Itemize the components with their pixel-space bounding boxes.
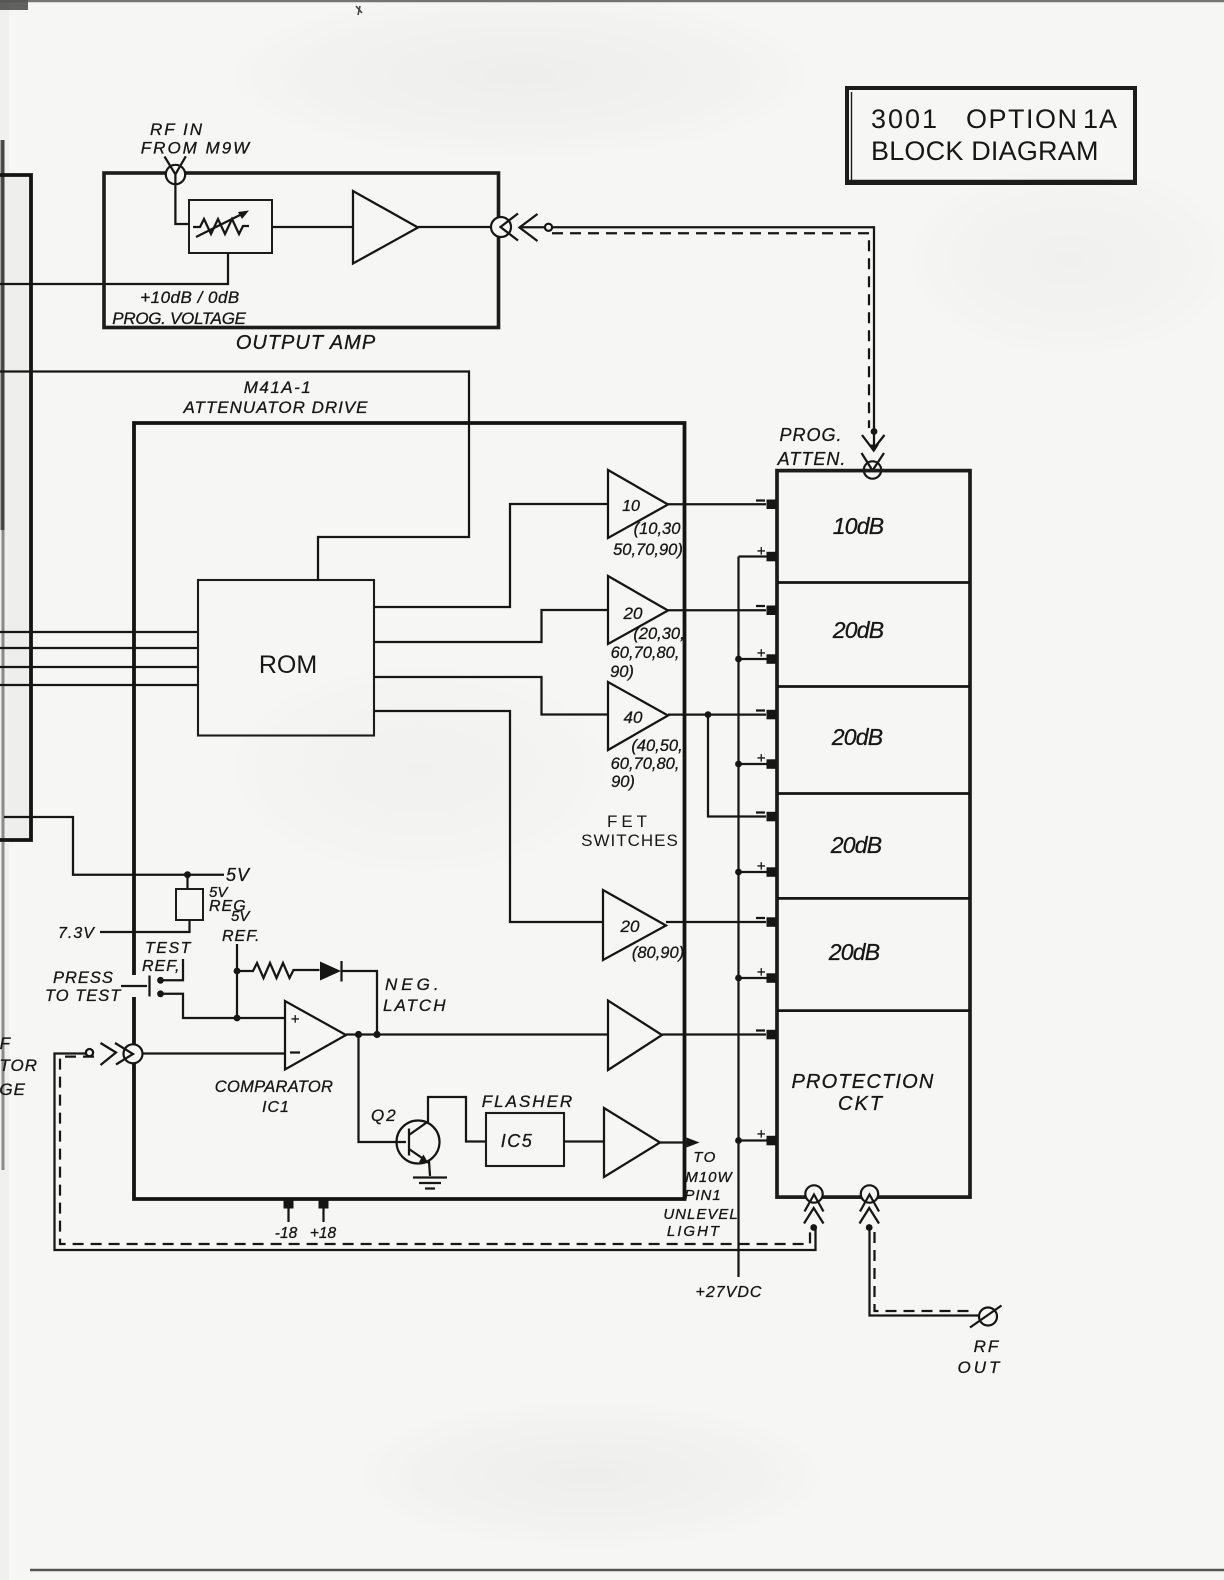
Q2 base bar [408,1129,410,1156]
connector J4 V arms [115,1043,133,1065]
connector J6 protection bottom right circle [861,1185,878,1202]
svg-text:M10W: M10W [685,1169,733,1186]
svg-text:DETECTOR: DETECTOR [0,1056,38,1075]
svg-text:LATCH: LATCH [383,996,447,1015]
svg-text:ATTENUATOR DRIVE: ATTENUATOR DRIVE [182,398,368,417]
terminal +18 square [319,1200,329,1209]
svg-text:40: 40 [624,708,643,727]
svg-text:90): 90) [610,663,634,681]
svg-text:ROM: ROM [259,651,317,679]
connector J5 protection bottom left circle [805,1185,822,1202]
svg-text:IC5: IC5 [501,1131,534,1151]
arrow of variable attenuator [196,214,242,237]
buffer T6 flasher output driver [604,1108,660,1177]
svg-text:IC1: IC1 [262,1099,290,1116]
comparator - sign [290,1051,300,1053]
IC flasher IC5 box [486,1113,564,1166]
svg-text:(80,90): (80,90) [632,944,684,962]
svg-text:COMPARATOR: COMPARATOR [215,1078,334,1096]
svg-text:10dB: 10dB [833,513,884,539]
connector J4 RF detector input circle [124,1044,143,1063]
node bus line 2 [0,647,198,649]
wire RF out dashed [875,1232,973,1311]
cable start dot at J2 [545,224,552,231]
transistor Q2 circle [397,1121,440,1164]
svg-text:20: 20 [623,604,643,623]
wire + column stub sec3 [739,763,767,765]
wire detector loop solid [55,1054,816,1251]
connector J3 prog atten input circle [864,461,881,478]
wire prog voltage line to output amp [0,253,228,284]
wire coax solid run to prog atten [552,227,874,431]
svg-text:SWITCHES: SWITCHES [581,831,679,850]
node ref-comparator junction dot [234,1015,241,1022]
svg-text:FROM M9W: FROM M9W [141,139,251,158]
cable chevron into J5 [804,1208,824,1224]
wire T1 output to section1 - [668,503,766,505]
connector J2 output amp RF out [491,217,511,237]
wire J4 to comparator - input [143,1052,286,1054]
paper speck top center [356,6,362,15]
svg-text:PRESS: PRESS [53,969,114,987]
wire 40 branch to section4 - [708,715,766,817]
regulator U2 5V REG box [186,875,188,889]
svg-text:+27VDC: +27VDC [696,1284,763,1301]
svg-text:(40,50,: (40,50, [631,737,682,755]
switch S1 press-to-test plunger [121,985,147,987]
svg-text:5V: 5V [226,865,251,885]
connector J7 slash [970,1306,1002,1328]
node 5V junction dot [184,871,191,878]
svg-text:20dB: 20dB [832,617,884,643]
svg-text:1A: 1A [1083,104,1118,134]
wire attenuator to amp [272,226,353,228]
svg-text:RF: RF [0,1034,12,1053]
title box 3001 OPTION 1A BLOCK DIAGRAM [847,88,1135,183]
wire + column stub sec5 [739,977,767,979]
svg-text:3001: 3001 [871,104,939,134]
svg-text:+: + [291,1011,300,1028]
svg-text:OPTION: OPTION [966,104,1079,134]
svg-text:OUT: OUT [958,1358,1003,1377]
terminal - square sec1 [767,500,777,510]
divider 20dB/20dB [777,685,970,688]
terminal -18 square [284,1200,294,1209]
wire T6 output arrow to unlevel light [660,1141,688,1143]
wire RF out solid [870,1229,980,1316]
connector J6 V arms [860,1195,879,1212]
wire T4 output to section5 - [666,921,766,923]
connector J3 V arms [862,453,885,471]
resistor zigzag inside variable attenuator [193,219,249,234]
svg-text:FLASHER: FLASHER [482,1092,574,1111]
divider 10dB/20dB [777,581,970,584]
ground symbol [413,1178,447,1189]
node + column dot sec5 [735,975,742,982]
wire RF IN to attenuator [175,174,189,224]
svg-text:BLOCK DIAGRAM: BLOCK DIAGRAM [871,136,1099,166]
buffer T1 FET switch driver 10 [608,470,668,538]
terminal + square sec6 [767,1136,777,1146]
left off-page module box (M9W) [0,175,31,840]
svg-text:PROG. VOLTAGE: PROG. VOLTAGE [112,309,246,328]
module box programmable attenuator / protection [777,471,970,1198]
wire + column stub sec1 [739,555,767,557]
terminal - square sec5 [767,917,777,927]
op-amp A1 output amplifier triangle [353,191,418,264]
wire 5V REF vertical [236,944,238,1018]
page top edge line [0,0,1224,2]
svg-text:10: 10 [622,498,640,515]
arrow chevron into prog atten input [862,435,885,450]
buffer T2 FET switch driver 20 [608,576,668,644]
cable dot at J5 [810,1224,817,1231]
diode CR1 [320,962,341,981]
svg-text:TO: TO [693,1149,717,1166]
svg-text:TO TEST: TO TEST [45,987,122,1005]
connector J7 RF OUT circle [979,1308,997,1326]
svg-text:PROG.: PROG. [779,425,842,445]
terminal - square sec6 [767,1030,777,1040]
wire coax dashed run to prog atten [552,233,869,428]
terminal - square sec3 [767,710,777,720]
wire comparator output to Q2 base [359,1035,407,1143]
Q2 emitter lead with arrow [409,1149,425,1160]
wire T3 output to section3 - [668,713,766,715]
node latch feedback dot [373,1031,380,1038]
wire switch to comparator + input [163,994,285,1018]
svg-text:PROTECTION: PROTECTION [791,1071,934,1093]
svg-text:FET: FET [607,812,651,831]
svg-text:60,70,80,: 60,70,80, [611,644,680,662]
wire attenuator drive label line [0,372,469,581]
node bus line 1 [0,631,198,633]
terminal + square sec5 [767,973,777,983]
svg-text:ATTEN.: ATTEN. [777,449,847,469]
svg-text:20dB: 20dB [830,832,882,858]
cable dot at J6 [866,1224,873,1231]
page left edge shadow line [2,140,5,1170]
output amp box [104,173,499,328]
connector J1 RF IN circle [166,165,185,184]
wire + column stub sec6 [739,1139,767,1141]
svg-text:CKT: CKT [838,1093,884,1115]
svg-text:UNLEVEL: UNLEVEL [663,1206,738,1223]
terminal - square sec4 [767,812,777,822]
svg-text:REF.: REF. [222,928,260,945]
node + column dot sec6 [735,1137,742,1144]
node ref-resistor junction dot [234,968,241,975]
wire ROM out A [374,504,608,607]
wire +27VDC column [737,557,739,1278]
terminal + square sec1 [767,552,777,562]
wire 7.3V feed from left [4,817,224,875]
wire ROM out D [374,711,603,922]
buffer T4 FET switch driver 20 (80,90) [603,890,666,960]
wire detector loop dashed [60,1057,810,1244]
divider 20dB/20dB [777,897,970,900]
svg-text:OUTPUT AMP: OUTPUT AMP [236,332,376,354]
cable chevron into J6 [860,1208,880,1224]
divider 20dB/20dB [777,792,970,795]
terminal - square sec2 [767,606,777,616]
node cable junction dot above prog atten [871,428,878,435]
svg-text:LIGHT: LIGHT [667,1223,721,1240]
svg-text:50,70,90): 50,70,90) [613,541,683,559]
svg-text:7.3V: 7.3V [58,925,95,942]
node bus line 3 [0,666,198,668]
wire T2 output to section2 - [668,609,766,611]
svg-text:5V: 5V [231,908,251,925]
svg-text:NEG.: NEG. [385,975,443,994]
node comparator output dot [355,1031,362,1038]
buffer T3 FET switch driver 40 [608,682,668,750]
connector J5 V arms [805,1195,824,1212]
cable start dot at J4 [86,1049,93,1056]
node bus line 4 [0,684,198,686]
wire test ref stub [163,959,183,980]
terminal + square sec3 [767,759,777,769]
svg-text:20dB: 20dB [831,724,883,750]
page bottom edge line [30,1569,1224,1572]
node + column dot sec3 [735,761,742,768]
IC ROM box [198,580,374,736]
svg-text:+18: +18 [310,1225,337,1242]
node + column dot sec2 [735,656,742,663]
divider 20dB/protection [777,1009,970,1012]
wire ROM out C [374,677,608,715]
svg-text:20: 20 [620,917,640,936]
resistor R1 latch feedback [240,963,320,978]
Q2 collector lead [409,1097,486,1142]
terminal + square sec2 [767,654,777,664]
svg-text:RF IN: RF IN [150,120,204,139]
svg-text:+10dB / 0dB: +10dB / 0dB [140,288,240,307]
wire comparator output to buffer T5 [346,1033,608,1035]
svg-text:VOLTAGE: VOLTAGE [0,1080,26,1099]
op-amp IC1 comparator triangle [285,1001,346,1070]
svg-text:PIN1: PIN1 [684,1187,721,1204]
node + column dot sec4 [735,869,742,876]
terminal + square sec4 [767,867,777,877]
wire amp to output connector [418,226,491,228]
wire diode to latch node [342,971,377,1035]
svg-text:60,70,80,: 60,70,80, [611,755,680,773]
wire emitter to ground [429,1161,430,1176]
switch S1 contact dots [157,977,164,984]
svg-text:-18: -18 [275,1225,298,1242]
svg-text:20dB: 20dB [828,939,880,965]
svg-text:Q2: Q2 [371,1106,398,1125]
module box M41A-1 attenuator drive [134,423,685,1199]
svg-text:(10,30: (10,30 [634,520,682,538]
variable attenuator box [189,200,272,253]
cable chevron into J4 [101,1043,117,1065]
node 40 branch dot [705,711,712,718]
svg-text:TEST: TEST [145,940,192,957]
wire T5 output to protection ckt [662,1033,766,1035]
cable chevron at J2 [520,214,538,241]
wire + column stub sec2 [739,658,767,660]
wire IC5 to buffer T6 [564,1140,604,1142]
wire + column stub sec4 [739,871,767,873]
connector J2 V arms [501,214,519,241]
svg-text:RF: RF [974,1337,1001,1356]
svg-text:(20,30,: (20,30, [633,625,684,643]
svg-text:90): 90) [611,773,635,791]
svg-text:M41A-1: M41A-1 [244,378,313,397]
wire ROM out B [374,610,608,642]
buffer T5 unlevel latch driver [608,1001,662,1071]
svg-text:REF,: REF, [142,958,180,975]
